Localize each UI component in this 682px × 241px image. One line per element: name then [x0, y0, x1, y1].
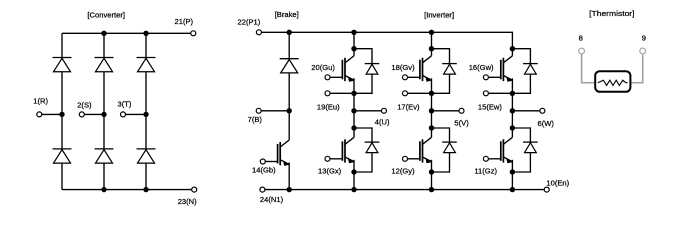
svg-text:6(W): 6(W) — [538, 119, 555, 128]
terminal 13(Gx) gate — [325, 156, 330, 161]
svg-text:15(Ew): 15(Ew) — [478, 103, 503, 112]
terminal 12(Gy) gate — [403, 156, 408, 161]
node N-rail / leg 3 — [143, 187, 148, 192]
wire terminal 5(V) — [432, 110, 462, 112]
wire leg 1 lower emitter stub — [353, 160, 355, 172]
wire leg 2 lower FWD branch — [432, 128, 450, 172]
wire leg 3 upper FWD branch — [512, 49, 530, 94]
wire terminal 6(W) — [512, 110, 542, 112]
svg-text:12(Gy): 12(Gy) — [391, 166, 415, 175]
wire terminal 2(S) — [82, 113, 104, 115]
node P1-rail / brake leg — [287, 30, 292, 35]
terminal 8 — [579, 48, 585, 54]
diode D4 (lower arm) — [53, 149, 72, 163]
diode D1 (upper arm) — [53, 58, 72, 72]
svg-text:11(Gz): 11(Gz) — [474, 166, 497, 175]
thermistor RT1 resistor zigzag — [598, 80, 628, 85]
wire converter leg 1 — [61, 33, 63, 189]
svg-text:18(Gv): 18(Gv) — [391, 63, 415, 72]
node P-rail / leg 2 — [429, 30, 434, 35]
terminal 18(Gv) gate — [403, 75, 408, 80]
node leg 2 output — [429, 108, 434, 113]
wire leg 2 to N-rail — [431, 172, 433, 190]
node leg 1 emitter — [351, 91, 356, 96]
node leg 3 lower collector split — [510, 125, 515, 130]
svg-text:7(B): 7(B) — [248, 115, 263, 124]
terminal 17(Ev) emitter sense — [403, 91, 408, 96]
wire leg 2 upper collector stub — [431, 49, 433, 56]
node leg 2 collector split — [429, 46, 434, 51]
svg-text:9: 9 — [642, 33, 646, 42]
svg-text:[Inverter]: [Inverter] — [424, 10, 454, 19]
wire converter leg 2 — [103, 33, 105, 189]
node N1-rail / brake leg — [287, 187, 292, 192]
terminal 20(Gu) gate — [325, 75, 330, 80]
node junction leg2-2(S) — [101, 112, 106, 117]
wire leg 2 lower emitter stub — [431, 160, 433, 172]
wire N1-rail — [262, 189, 546, 191]
wire P-rail converter — [62, 32, 193, 34]
node leg 3 collector split — [510, 46, 515, 51]
wire leg 3 mid — [511, 93, 513, 128]
node P-rail / leg 2 — [101, 31, 106, 36]
svg-text:4(U): 4(U) — [375, 117, 390, 126]
wire terminal 19(Eu) — [328, 92, 355, 94]
wire N-rail converter — [62, 189, 194, 191]
svg-text:24(N1): 24(N1) — [260, 195, 284, 204]
wire leg 3 lower emitter stub — [511, 160, 513, 172]
terminal 2(S) — [79, 112, 84, 117]
node P-rail / leg 1 — [351, 30, 356, 35]
svg-text:[Converter]: [Converter] — [87, 10, 125, 19]
wire leg 1 upper FWD branch — [354, 49, 372, 94]
wire leg 1 collector drop — [353, 32, 355, 48]
svg-text:13(Gx): 13(Gx) — [318, 166, 342, 175]
wire converter leg 3 — [145, 33, 147, 189]
node junction leg1-1(R) — [59, 112, 64, 117]
terminal 4(U) output — [382, 108, 387, 113]
diode FWD Q4 (lower freewheel) — [365, 142, 380, 153]
svg-text:23(N): 23(N) — [178, 197, 197, 206]
transistor Q2 18(Gv) IGBT — [408, 56, 432, 82]
terminal 24(N1) — [260, 187, 265, 192]
transistor Q7 14(Gb) IGBT — [265, 140, 289, 166]
node leg 1 lower collector split — [351, 125, 356, 130]
svg-text:1(R): 1(R) — [33, 97, 48, 106]
wire brake collector leg — [288, 32, 290, 140]
terminal 14(Gb) gate — [260, 159, 265, 164]
terminal 7(B) — [256, 108, 261, 113]
wire terminal 1(R) — [39, 113, 62, 115]
wire leg 3 lower collector stub — [511, 128, 513, 137]
svg-text:19(Eu): 19(Eu) — [317, 103, 340, 112]
wire leg 1 upper collector stub — [353, 49, 355, 56]
terminal 15(Ew) emitter sense — [483, 91, 488, 96]
node leg 1 lower emitter — [351, 169, 356, 174]
wire terminal 7(B) — [259, 110, 290, 112]
node junction leg3-3(T) — [143, 112, 148, 117]
wire leg 2 upper emitter stub — [431, 78, 433, 93]
diode FWD Q1 (upper freewheel) — [365, 64, 380, 75]
diode FWD Q3 (upper freewheel) — [523, 64, 538, 75]
wire leg 1 lower collector stub — [353, 128, 355, 137]
diode FWD Q5 (lower freewheel) — [442, 142, 457, 153]
diode D6 (lower arm) — [137, 149, 156, 163]
node leg 2 lower collector split — [429, 125, 434, 130]
node leg 1 output — [351, 108, 356, 113]
wire leg 3 upper emitter stub — [511, 78, 513, 93]
node N-rail / leg 2 — [429, 187, 434, 192]
wire brake emitter — [288, 163, 290, 190]
transistor Q6 11(Gz) IGBT — [489, 137, 513, 163]
transistor Q1 20(Gu) IGBT — [330, 56, 354, 82]
wire P1-rail — [259, 32, 513, 48]
terminal 10(En) — [544, 187, 549, 192]
svg-text:5(V): 5(V) — [454, 118, 469, 127]
terminal 22(P1) — [256, 30, 261, 35]
wire terminal 17(Ev) — [405, 92, 432, 94]
wire thermistor right — [628, 54, 643, 83]
svg-text:[Brake]: [Brake] — [275, 10, 299, 19]
wire leg 1 mid — [353, 93, 355, 128]
svg-text:8: 8 — [579, 33, 583, 42]
transistor Q4 13(Gx) IGBT — [330, 137, 354, 163]
wire leg 2 collector drop — [431, 32, 433, 48]
diode D2 (upper arm) — [95, 58, 114, 72]
wire leg 2 lower collector stub — [431, 128, 433, 137]
diode FWD Q6 (lower freewheel) — [523, 142, 538, 153]
terminal 6(W) output — [540, 108, 545, 113]
wire terminal 4(U) — [354, 110, 384, 112]
terminal 9 — [640, 48, 646, 54]
transistor Q5 12(Gy) IGBT — [408, 137, 432, 163]
node brake leg / 7(B) — [287, 108, 292, 113]
terminal 16(Gw) gate — [483, 75, 488, 80]
diode D5 (lower arm) — [95, 149, 114, 163]
wire terminal 15(Ew) — [486, 92, 513, 94]
svg-text:2(S): 2(S) — [77, 101, 92, 110]
wire leg 3 lower FWD branch — [512, 128, 530, 172]
svg-text:22(P1): 22(P1) — [238, 18, 261, 27]
svg-text:16(Gw): 16(Gw) — [469, 63, 494, 72]
diode D3 (upper arm) — [137, 58, 156, 72]
wire leg 1 upper emitter stub — [353, 78, 355, 93]
thermistor RT1 body — [595, 71, 630, 92]
wire thermistor left — [582, 54, 597, 83]
terminal 19(Eu) emitter sense — [325, 91, 330, 96]
diode FWD Q2 (upper freewheel) — [442, 64, 457, 75]
transistor Q3 16(Gw) IGBT — [489, 56, 513, 82]
node leg 1 collector split — [351, 46, 356, 51]
svg-text:3(T): 3(T) — [118, 99, 132, 108]
terminal 23(N) — [192, 187, 197, 192]
node P-rail / leg 3 — [143, 31, 148, 36]
node N-rail / leg 2 — [101, 187, 106, 192]
svg-text:10(En): 10(En) — [546, 179, 569, 188]
diode D7 (brake freewheel) — [280, 59, 299, 73]
wire leg 2 upper FWD branch — [432, 49, 450, 94]
wire leg 3 upper collector stub — [511, 49, 513, 56]
node leg 3 emitter — [510, 91, 515, 96]
terminal 5(V) output — [459, 108, 464, 113]
node leg 3 lower emitter — [510, 169, 515, 174]
wire leg 1 to N-rail — [353, 172, 355, 190]
svg-text:17(Ev): 17(Ev) — [397, 103, 420, 112]
terminal 3(T) — [121, 112, 126, 117]
node leg 2 lower emitter — [429, 169, 434, 174]
wire leg 2 mid — [431, 93, 433, 128]
node leg 3 output — [510, 108, 515, 113]
svg-text:[Thermistor]: [Thermistor] — [589, 9, 634, 18]
svg-text:20(Gu): 20(Gu) — [311, 63, 335, 72]
node leg 2 emitter — [429, 91, 434, 96]
svg-text:21(P): 21(P) — [175, 17, 194, 26]
wire leg 1 lower FWD branch — [354, 128, 372, 172]
terminal 1(R) — [37, 112, 42, 117]
node N-rail / leg 1 — [351, 187, 356, 192]
svg-text:14(Gb): 14(Gb) — [252, 166, 276, 175]
node N-rail / leg 3 — [510, 187, 515, 192]
wire leg 3 to N-rail — [511, 172, 513, 190]
terminal 21(P) — [191, 31, 196, 36]
wire terminal 3(T) — [123, 113, 146, 115]
terminal 11(Gz) gate — [483, 156, 488, 161]
